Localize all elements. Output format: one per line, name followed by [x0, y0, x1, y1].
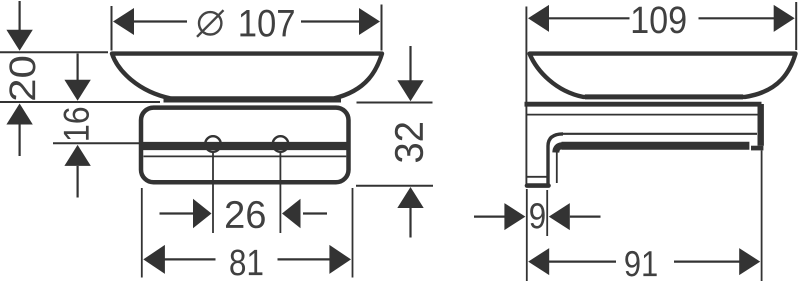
ext line bottom (bracket bottom right)	[356, 185, 433, 187]
ext line right of 91 (holder right edge)	[761, 151, 763, 281]
label 107	[240, 10, 293, 37]
ext line left below foot	[526, 189, 528, 281]
arrow 81 right (points right)	[329, 245, 351, 274]
label 109	[633, 6, 686, 33]
wall plate step line	[527, 176, 547, 178]
tail left	[474, 216, 505, 218]
outer elbow curve + plate front face	[548, 134, 563, 185]
arrow 9 left (points right)	[504, 203, 525, 230]
arrow 109 right (points right)	[774, 5, 795, 32]
arm top surface line	[562, 133, 757, 135]
ext line right of 109 (dish front edge)	[795, 2, 797, 50]
holder bracket front (rounded rectangle)	[141, 108, 349, 183]
dim line 81 right segment	[278, 258, 331, 260]
arrow 9 right (points left)	[549, 203, 570, 230]
ext line left screw	[212, 153, 214, 234]
arm bottom band	[562, 142, 750, 150]
arrow 32 bottom (up)	[397, 187, 423, 208]
label 16 (rotated)	[63, 108, 89, 140]
ext line left of dia107	[111, 6, 113, 51]
arrow 20 bottom (up)	[6, 104, 32, 125]
tail above top arrow	[19, 1, 21, 30]
diameter symbol	[197, 10, 224, 37]
arrow 26 right (points left)	[282, 199, 301, 229]
arrow 16 bottom (up)	[64, 145, 90, 166]
dim line 91 right segment	[674, 261, 741, 263]
tail right	[303, 212, 327, 214]
dim line 91 left segment	[549, 261, 616, 263]
label 32 (rotated)	[395, 123, 423, 162]
ext line left bracket edge	[141, 188, 143, 278]
arrow 26 left (points right)	[193, 199, 212, 229]
ext line right bracket edge	[352, 188, 354, 278]
dim line 81 left segment	[164, 258, 216, 260]
arrow dia107 right	[359, 8, 380, 35]
arrow 109 left (points left)	[528, 5, 549, 32]
label 9	[530, 203, 545, 229]
holder plate inner line	[526, 114, 758, 116]
arrow 91 left (points left)	[528, 248, 549, 275]
tail right	[570, 216, 601, 218]
arrow 91 right (points right)	[739, 248, 760, 275]
ext line bottom (dish underside)	[0, 101, 160, 103]
dish rim seam (thick band inside bracket)	[142, 142, 349, 150]
rim underside hook (right end)	[751, 146, 763, 151]
tail above top arrow	[409, 46, 411, 81]
label 81	[230, 250, 262, 276]
dim line dia107 left segment	[132, 20, 187, 22]
arrow 16 top (down)	[64, 80, 90, 101]
arrow 81 left (points left)	[143, 245, 165, 274]
ext line right below foot	[546, 190, 548, 236]
ext line top (dish underside right)	[357, 102, 433, 104]
ext line right screw	[279, 153, 281, 234]
dish bottom rim (front, thick)	[164, 97, 342, 102]
dim line dia107 right segment	[301, 20, 361, 22]
inner elbow curve (thick bend)	[556, 146, 562, 153]
ext line right of dia107	[381, 5, 383, 51]
holder right rim edge	[758, 104, 764, 146]
wall plate foot cap	[527, 183, 549, 188]
dish bottom rim (side, thick)	[585, 94, 743, 99]
inner edge vertical line	[556, 152, 558, 183]
holder top plate top edge	[525, 102, 762, 107]
arrow dia107 left	[113, 8, 134, 35]
label 91	[625, 251, 656, 277]
ext line top (dish top)	[0, 51, 108, 53]
label 20 (rotated)	[9, 57, 35, 100]
tail below bottom arrow	[409, 208, 411, 238]
tail below bottom arrow	[76, 166, 78, 198]
tail below bottom arrow	[19, 125, 21, 157]
label 26	[226, 201, 265, 228]
arrow 32 top (down)	[397, 80, 423, 101]
screw hole right	[273, 136, 289, 152]
screw hole left	[205, 136, 221, 152]
dim line 109 right segment	[699, 17, 776, 19]
arrow 20 top (down)	[6, 30, 32, 51]
ext line at rim seam level	[53, 142, 139, 144]
soap dish bowl (front outline)	[112, 54, 382, 99]
dim line 109 left segment	[549, 17, 630, 19]
tail left	[160, 212, 194, 214]
wall face line (also 109 left ext)	[525, 7, 527, 187]
holder lower step line	[144, 155, 347, 157]
tail above top arrow	[76, 54, 78, 81]
soap dish bowl (side outline)	[530, 54, 796, 97]
